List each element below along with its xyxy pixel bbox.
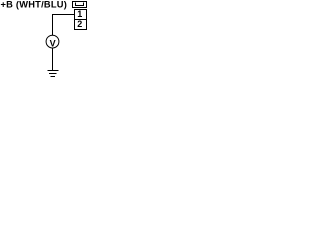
connector housing outline [73,2,87,8]
ground bar 1 [48,70,59,72]
ground bar 2 [49,73,57,75]
svg-text:1: 1 [77,9,82,19]
wire: pin 1 to corner (horizontal) [52,14,75,16]
ground bar 3 [51,76,56,78]
wire: corner down to voltmeter (vertical) [52,14,54,35]
svg-text:+B (WHT/BLU): +B (WHT/BLU) [1,0,67,10]
pin divider line [75,19,87,21]
wire: voltmeter to ground (vertical) [52,48,54,70]
connector housing lock tab (inner U) [76,3,84,6]
svg-text:V: V [50,39,56,49]
svg-text:2: 2 [77,19,82,29]
connector pin block outline [75,10,87,30]
voltmeter V1 circle [46,35,59,48]
